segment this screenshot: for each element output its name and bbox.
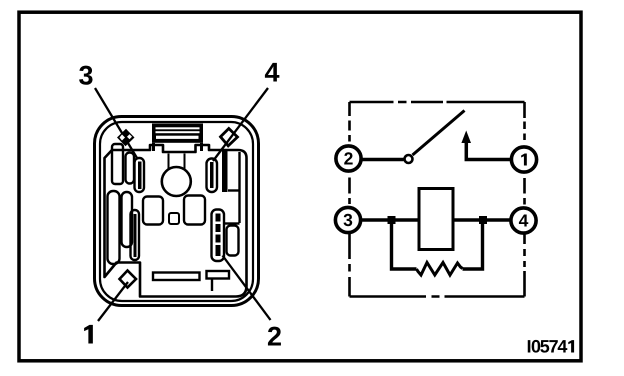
wire terminal 3 to coil (360, 218, 419, 222)
switch pivot contact (405, 155, 413, 163)
wire terminal 1 to arrow (466, 140, 511, 160)
connector inner shell (100, 122, 253, 301)
arrow head (461, 131, 471, 144)
slot B upper-left (126, 153, 135, 184)
right wall finger (222, 149, 228, 192)
pin 3 moulding diamond (117, 129, 135, 146)
terminal 2 circle (336, 146, 361, 171)
leader line for label 2 (223, 256, 271, 321)
left tall slot (108, 191, 120, 264)
pin 1 moulding diamond (120, 271, 137, 288)
bottom slot left (153, 273, 200, 281)
center notch (169, 213, 179, 224)
right wall step (228, 189, 240, 191)
left wall finger (112, 144, 123, 184)
left mid slot (122, 192, 133, 247)
terminal 1 circle (511, 147, 536, 172)
terminal slot lower-left (131, 210, 140, 260)
label 1 (84, 325, 93, 344)
boss connector stubs (168, 154, 170, 169)
bottom tick (211, 279, 213, 291)
terminal slot 3 (135, 158, 145, 192)
terminal slot 4 (207, 159, 218, 193)
right wall ledge (224, 222, 240, 224)
switch blade (413, 111, 465, 156)
wire coil to terminal 4 (453, 218, 511, 222)
cavity wall ring (105, 145, 247, 297)
junction left (388, 216, 396, 224)
figure code I05741 (528, 340, 531, 352)
relay schematic enclosure dash-dot box (350, 102, 525, 297)
bottom slot right (207, 271, 230, 279)
label 2 (268, 327, 281, 346)
label 4 (265, 63, 279, 82)
right square slot (184, 196, 205, 225)
pin 4 moulding diamond (221, 129, 238, 146)
terminal 3 circle (335, 207, 360, 232)
small slot right of terminal 2 (227, 226, 239, 256)
resistor branch right wire (463, 224, 483, 269)
resistor R (417, 263, 463, 276)
leader line for label 3 (95, 88, 137, 158)
label 3 (79, 66, 92, 85)
wire terminal 2 to contact (360, 158, 404, 162)
junction right (479, 216, 487, 224)
leader line for label 1 (98, 282, 128, 321)
leader line for label 4 (213, 88, 268, 161)
center boss circle (162, 167, 191, 196)
terminal slot 2 hatched (212, 210, 225, 262)
right inner wall line (238, 152, 240, 223)
relay coil (419, 189, 453, 250)
left square slot (143, 197, 163, 225)
resistor branch left wire (392, 224, 417, 269)
top key slot (152, 124, 203, 143)
connector outer shell (95, 117, 259, 306)
terminal 4 circle (511, 208, 536, 233)
